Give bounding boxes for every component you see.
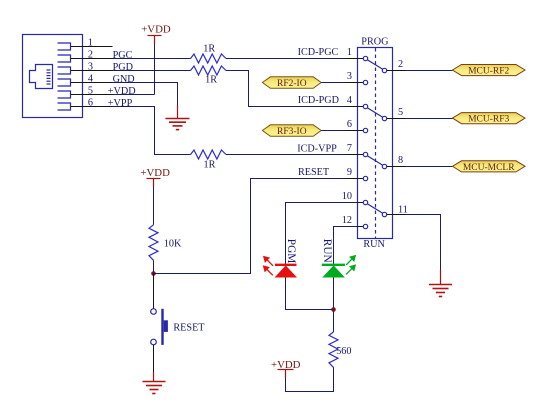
svg-text:PGC: PGC [113, 50, 133, 61]
pin 4 [71, 82, 113, 84]
svg-text:4: 4 [347, 95, 352, 106]
svg-text:1: 1 [347, 47, 352, 58]
switch blade 10-11 [367, 204, 383, 214]
svg-text:+VPP: +VPP [108, 98, 133, 109]
LED D1 arrows [264, 257, 273, 276]
pin 5 [71, 94, 113, 96]
svg-text:3: 3 [347, 71, 352, 82]
wire pin8 to MCU-MCLR [406, 166, 453, 168]
svg-text:PGD: PGD [113, 62, 133, 73]
pin 3 [71, 70, 113, 72]
svg-text:1: 1 [88, 37, 93, 48]
svg-text:MCU-RF2: MCU-RF2 [468, 67, 509, 77]
connector J1 RJ-11 [23, 35, 83, 118]
port MCU-RF2 [453, 65, 526, 77]
wire LED anodes join [286, 278, 334, 310]
svg-text:ICD-VPP: ICD-VPP [297, 144, 337, 155]
power +VDD bottom [271, 359, 301, 378]
resistor R5 560 [329, 332, 351, 368]
power +VDD top [141, 24, 171, 45]
LED D2 arrows [346, 256, 355, 275]
wire +VDD row [113, 94, 155, 96]
svg-text:MCU-RF3: MCU-RF3 [468, 115, 509, 125]
wire VDD to 10K [153, 187, 155, 225]
wire RF2-IO to pin3 [321, 82, 357, 84]
svg-text:6: 6 [347, 119, 352, 130]
svg-text:1R: 1R [205, 75, 217, 86]
svg-text:RF2-IO: RF2-IO [277, 79, 307, 89]
svg-text:PROG: PROG [361, 37, 389, 48]
LED D1 PGM red [275, 265, 297, 278]
switch blade 1-2 [367, 60, 383, 70]
svg-text:MCU-MCLR: MCU-MCLR [463, 163, 515, 173]
wire pin12 to RUN led [334, 227, 358, 265]
switch blade 4-5 [367, 108, 383, 118]
svg-text:RUN: RUN [321, 239, 333, 263]
wire 10K to node [153, 260, 155, 273]
junction node LED [331, 307, 336, 312]
svg-text:10: 10 [342, 191, 352, 202]
wire PGC left [113, 58, 191, 60]
svg-text:ICD-PGD: ICD-PGD [298, 95, 339, 106]
wire pin10 to PGM led [286, 203, 358, 265]
junction node RESET [151, 271, 156, 276]
wire RUN led down [333, 278, 335, 332]
switch pin numbers right [398, 59, 408, 215]
switch pin numbers left [342, 47, 352, 226]
svg-text:2: 2 [88, 49, 93, 60]
wire RESET net [154, 167, 358, 274]
svg-text:ICD-PGC: ICD-PGC [298, 47, 339, 58]
port MCU-MCLR [453, 161, 526, 173]
switch contacts circles right [382, 68, 386, 216]
pin 1 stub [71, 46, 113, 48]
button pin bottom [153, 345, 155, 372]
svg-text:1R: 1R [203, 43, 215, 54]
switch block PROG [358, 37, 393, 250]
switch pin stubs right [387, 71, 406, 215]
wire 560 to VDD [286, 367, 334, 391]
power +VDD mid [140, 167, 170, 187]
pin numbers 1-6 [88, 37, 93, 108]
svg-text:560: 560 [336, 346, 351, 357]
svg-text:PGM: PGM [285, 239, 297, 263]
wire pin2 to MCU-RF2 [406, 70, 453, 72]
wire +VPP [113, 107, 191, 155]
pin 2 [71, 58, 113, 60]
svg-text:RESET: RESET [298, 167, 330, 178]
wire RF3-IO to pin6 [321, 130, 357, 132]
svg-text:6: 6 [88, 97, 93, 108]
port RF2-IO [262, 77, 321, 89]
LED D2 RUN green [322, 265, 345, 278]
pushbutton RESET [151, 309, 206, 345]
wire ICD-VPP [226, 144, 358, 155]
svg-text:5: 5 [88, 85, 93, 96]
label PGM vertical [285, 239, 297, 263]
wire GND [113, 83, 178, 106]
pin labels [108, 50, 136, 109]
wire PGC right / ICD-PGC [226, 47, 358, 59]
switch pin stubs left [346, 59, 364, 227]
svg-text:1R: 1R [204, 159, 216, 170]
svg-text:10K: 10K [164, 238, 182, 249]
svg-text:+VDD: +VDD [108, 86, 136, 97]
svg-text:7: 7 [347, 143, 352, 154]
ground bottom left [143, 372, 166, 394]
svg-text:3: 3 [88, 61, 93, 72]
wire +VDD drop [154, 44, 156, 95]
label RUN vertical [321, 239, 333, 263]
pin 6 [71, 106, 113, 108]
wire PGD right / ICD-PGD [226, 71, 358, 107]
switch contacts circles left [363, 56, 367, 228]
resistor R4 10K [149, 225, 182, 260]
svg-text:RF3-IO: RF3-IO [277, 127, 307, 137]
wire pin5 to MCU-RF3 [406, 118, 453, 120]
svg-text:GND: GND [113, 74, 135, 85]
svg-text:4: 4 [88, 73, 93, 84]
svg-text:+VDD: +VDD [141, 24, 171, 36]
port RF3-IO [262, 125, 321, 137]
button pin top [153, 274, 155, 309]
ground GND middle [166, 105, 190, 130]
svg-text:+VDD: +VDD [140, 167, 170, 179]
svg-text:8: 8 [398, 155, 403, 166]
svg-text:2: 2 [398, 59, 403, 70]
svg-text:RESET: RESET [173, 322, 205, 333]
switch blade 7-8 [367, 156, 383, 166]
svg-text:11: 11 [398, 204, 408, 215]
svg-text:5: 5 [398, 107, 403, 118]
svg-text:9: 9 [347, 167, 352, 178]
port MCU-RF3 [453, 113, 526, 125]
svg-text:RUN: RUN [363, 239, 385, 250]
resistor R2 1R [191, 66, 227, 86]
ground right [429, 270, 452, 297]
svg-text:12: 12 [342, 215, 352, 226]
resistor R3 1R [191, 150, 227, 170]
resistor R1 1R [191, 43, 227, 63]
wire PGD left [113, 70, 191, 72]
wire pin11 to ground [406, 215, 441, 271]
